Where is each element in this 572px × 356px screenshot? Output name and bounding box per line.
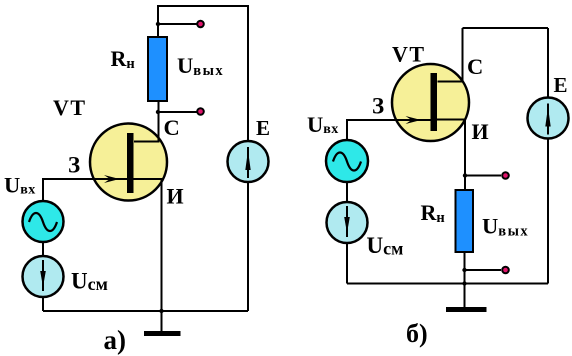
svg-text:С: С [467,54,483,79]
wire: E branch upper (left) [247,5,249,141]
wire: gate lead (left) [43,179,127,201]
ground (left) [161,311,163,331]
svg-text:Uвых: Uвых [177,53,224,79]
svg-text:И: И [472,119,489,144]
wire: between U_вх and U_см (left) [42,242,44,256]
source U_вх (left) sine generator [23,201,64,242]
node: right output terminal top (red dot) [502,172,509,179]
wire: resistor bottom to drain of VT (left) [134,101,159,142]
transistor VT (right) gate arrow [406,116,422,124]
transistor VT (left) gate arrow [104,175,120,183]
wire: U_см to bottom rail (right) [346,243,348,284]
svg-text:VT: VT [392,42,426,67]
wire: between U_вх and U_см (right) [346,182,348,203]
junction dot: left stub bottom [156,110,160,114]
source U_вх (right) sine generator [326,140,368,182]
transistor VT (left) channel bar [127,133,134,193]
svg-text:Uвх: Uвх [307,112,339,137]
wire: source of VT to ground rail (left) [133,179,162,311]
wire: right top rail [463,27,549,29]
sine symbol (left) [29,213,57,231]
junction dot: right bottom rail [462,281,466,285]
svg-text:З: З [68,153,80,178]
wire: right bottom rail [347,283,548,285]
U_см arrow down (left) [42,260,44,291]
wire: gate lead (right) [347,120,431,140]
wire: U_см to bottom rail (left) [42,297,44,311]
wire: E branch lower (left) [247,182,249,311]
junction dot: left stub top [156,22,160,26]
E arrow up (right) [547,104,549,135]
svg-text:Uсм: Uсм [71,269,108,295]
svg-text:Uсм: Uсм [367,233,404,259]
wire: left output stub bottom [158,111,197,113]
E arrow up (left) [247,147,249,178]
svg-text:Rн: Rн [111,46,135,72]
svg-text:С: С [164,115,180,140]
wire: left drain rail upper segment [157,5,159,38]
wire: left output stub top [158,23,197,25]
node: left output terminal bottom (red dot) [197,108,204,115]
resistor R_н (left) [148,37,167,101]
wire: left top rail [158,5,248,7]
svg-text:З: З [372,94,384,119]
svg-text:Rн: Rн [421,200,445,226]
svg-text:Uвх: Uвх [4,173,36,198]
svg-text:Uвых: Uвых [482,214,529,240]
transistor VT (left) body [90,124,167,201]
source U_см (left) bias source [23,256,64,297]
U_см arrow down (right) [346,206,348,237]
svg-text:а): а) [104,325,127,355]
source U_см (right) bias source [327,202,368,243]
svg-text:И: И [167,184,184,209]
wire: resistor bottom to bottom rail (right) [464,252,466,284]
wire: E branch upper (right) [547,28,549,98]
svg-text:б): б) [406,319,428,348]
svg-text:E: E [554,73,568,97]
source E (left) [228,141,269,182]
wire: right output stub bottom [465,269,502,271]
wire: drain lead of VT (right) [438,28,463,82]
wire: right output stub top [465,175,501,177]
node: left output terminal top (red dot) [197,21,204,28]
junction dot: right stub top [463,173,467,177]
ground (right) [464,284,466,308]
wire: E branch lower (right) [547,139,549,284]
wire: left bottom rail [43,310,248,312]
svg-text:E: E [256,116,270,140]
wire: source of VT to resistor (right) [437,120,466,191]
svg-text:VT: VT [53,95,87,120]
source E (right) [528,98,569,139]
resistor R_н (right) [456,190,474,252]
transistor VT (right) channel bar [431,73,438,131]
node: right output terminal bottom (red dot) [502,267,509,274]
junction dot: right stub bottom [462,268,466,272]
transistor VT (right) body [392,64,469,141]
sine symbol (right) [333,153,361,171]
junction dot: left bottom rail [159,309,163,313]
